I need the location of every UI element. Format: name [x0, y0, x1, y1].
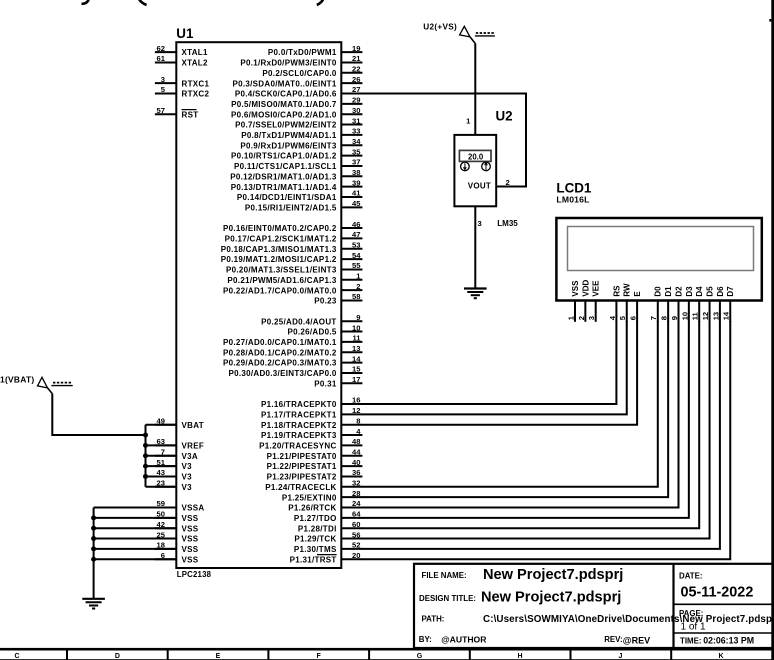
- svg-text:38: 38: [352, 168, 360, 177]
- svg-text:P1.28/TDI: P1.28/TDI: [298, 524, 337, 533]
- U1 pin 42 VSS: [155, 520, 199, 533]
- svg-text:D0: D0: [654, 286, 663, 297]
- svg-text:VBAT: VBAT: [182, 421, 204, 430]
- svg-text:P1.22/PIPESTAT1: P1.22/PIPESTAT1: [267, 462, 337, 471]
- wire U1(VBAT) flag to VBAT rail: [52, 394, 145, 435]
- svg-text:56: 56: [352, 530, 360, 539]
- svg-text:P1.18/TRACEPKT2: P1.18/TRACEPKT2: [261, 421, 337, 430]
- junction dots VBAT rail: [143, 433, 148, 479]
- svg-text:40: 40: [352, 458, 360, 467]
- U2 pin 1 number: [466, 117, 471, 126]
- svg-text:P1.31/TRST: P1.31/TRST: [290, 555, 337, 564]
- LCD1 pin 12 D5: [701, 286, 715, 322]
- svg-text:58: 58: [352, 292, 360, 301]
- LCD1 pin 14 D7: [722, 286, 736, 322]
- LCD1 pin 3 VEE: [587, 280, 601, 322]
- svg-text:64: 64: [352, 510, 361, 519]
- svg-text:31: 31: [352, 116, 361, 125]
- svg-text:U2(+VS): U2(+VS): [423, 23, 457, 32]
- svg-text:DESIGN TITLE:: DESIGN TITLE:: [419, 594, 476, 603]
- svg-text:8: 8: [660, 316, 669, 320]
- svg-text:26: 26: [352, 75, 360, 84]
- svg-text:22: 22: [352, 65, 360, 74]
- U1 pin 47 P0.17/CAP1.2/SCK1/MAT1.2: [225, 230, 363, 243]
- U1 pin 41 P0.14/DCD1/EINT1/SDA1: [237, 189, 362, 202]
- wire LCD1 D3 to U1 row pin: [362, 321, 689, 518]
- svg-text:@AUTHOR: @AUTHOR: [441, 635, 487, 645]
- svg-text:XTAL1: XTAL1: [182, 48, 208, 57]
- U1 pin 58 P0.23: [314, 292, 362, 305]
- U1 pin 44 P1.21/PIPESTAT0: [267, 447, 363, 460]
- svg-text:PATH:: PATH:: [422, 614, 445, 623]
- U1 pin 36 P1.23/PIPESTAT2: [267, 468, 363, 481]
- svg-text:P0.18/CAP1.3/MISO1/MAT1.3: P0.18/CAP1.3/MISO1/MAT1.3: [221, 245, 337, 254]
- svg-text:P0.8/TxD1/PWM4/AD1.1: P0.8/TxD1/PWM4/AD1.1: [241, 131, 337, 140]
- svg-text:9: 9: [356, 313, 360, 322]
- svg-text:11: 11: [691, 311, 700, 320]
- svg-text:41: 41: [352, 189, 361, 198]
- U1 pin 5 RTXC2: [155, 85, 210, 98]
- U1 pin 39 P0.13/DTR1/MAT1.1/AD1.4: [231, 178, 363, 191]
- svg-text:DATE:: DATE:: [679, 571, 703, 580]
- svg-text:P0.14/DCD1/EINT1/SDA1: P0.14/DCD1/EINT1/SDA1: [237, 193, 337, 202]
- svg-text:P1.24/TRACECLK: P1.24/TRACECLK: [265, 483, 336, 492]
- IC U1 LPC2138: [176, 26, 341, 579]
- U1 pin 49 VBAT: [155, 416, 204, 429]
- U1 pin 13 P0.28/AD0.1/CAP0.2/MAT0.2: [223, 344, 362, 357]
- U1 pin 33 P0.8/TxD1/PWM4/AD1.1: [241, 127, 362, 140]
- U1 pin 54 P0.19/MAT1.2/MOSI1/CAP1.2: [221, 251, 363, 264]
- svg-text:46: 46: [352, 220, 360, 229]
- svg-text:33: 33: [352, 127, 360, 136]
- U1 pin 25 VSS: [155, 530, 199, 543]
- svg-text:61: 61: [157, 54, 166, 63]
- svg-text:53: 53: [352, 240, 360, 249]
- svg-text:V3: V3: [182, 462, 193, 471]
- svg-text:15: 15: [352, 365, 361, 374]
- svg-text:13: 13: [711, 312, 720, 320]
- U1 pin 18 VSS: [155, 541, 199, 554]
- svg-text:F: F: [316, 653, 321, 660]
- LCD1 pin 2 VDD: [577, 279, 591, 321]
- svg-text:17: 17: [352, 375, 360, 384]
- U1 pin 31 P0.7/SSEL0/PWM2/EINT2: [235, 116, 362, 129]
- svg-text:1: 1: [466, 117, 471, 126]
- svg-text:47: 47: [352, 230, 360, 239]
- U1 pin 63 VREF: [155, 437, 204, 450]
- svg-text:REV:: REV:: [604, 635, 622, 644]
- wire LCD1 D0 to U1 row pin: [362, 321, 658, 487]
- svg-text:P1.19/TRACEPKT3: P1.19/TRACEPKT3: [261, 431, 337, 440]
- svg-text:New Project7.pdsprj: New Project7.pdsprj: [483, 567, 623, 583]
- svg-text:28: 28: [352, 489, 360, 498]
- svg-text:P0.21/PWM5/AD1.6/CAP1.3: P0.21/PWM5/AD1.6/CAP1.3: [227, 276, 336, 285]
- net rail VSSA/VSS to ground: [94, 508, 177, 599]
- svg-text:P0.16/EINT0/MAT0.2/CAP0.2: P0.16/EINT0/MAT0.2/CAP0.2: [223, 224, 337, 233]
- svg-text:P0.13/DTR1/MAT1.1/AD1.4: P0.13/DTR1/MAT1.1/AD1.4: [231, 183, 337, 192]
- svg-text:37: 37: [352, 158, 360, 167]
- svg-text:P0.20/MAT1.3/SSEL1/EINT3: P0.20/MAT1.3/SSEL1/EINT3: [226, 266, 337, 275]
- U1 pin 46 P0.16/EINT0/MAT0.2/CAP0.2: [223, 220, 362, 233]
- svg-text:LPC2138: LPC2138: [177, 570, 212, 579]
- svg-text:C: C: [14, 653, 19, 660]
- U1 pin 23 V3: [155, 479, 192, 492]
- U1 pin 7 V3A: [155, 447, 198, 460]
- U1 pin 57 RST: [155, 106, 199, 119]
- LCD1 pin 10 D3: [680, 286, 694, 322]
- svg-text:20.0: 20.0: [468, 153, 484, 162]
- svg-text:K: K: [718, 653, 723, 660]
- U1 pin 32 P1.24/TRACECLK: [265, 479, 362, 492]
- U2 pin 2 VOUT stub: [496, 178, 519, 187]
- svg-text:RS: RS: [612, 285, 621, 297]
- svg-text:P0.12/DSR1/MAT1.0/AD1.3: P0.12/DSR1/MAT1.0/AD1.3: [230, 172, 337, 181]
- svg-text:D5: D5: [705, 286, 714, 297]
- svg-text:11: 11: [352, 334, 361, 343]
- svg-text:36: 36: [352, 468, 360, 477]
- wire LCD1 D2 to U1 row pin: [362, 321, 679, 508]
- svg-text:E: E: [216, 653, 221, 660]
- svg-text:P0.6/MOSI0/CAP0.2/AD1.0: P0.6/MOSI0/CAP0.2/AD1.0: [231, 110, 337, 119]
- svg-text:6: 6: [629, 316, 638, 320]
- U1 pin 45 P0.15/RI1/EINT2/AD1.5: [245, 199, 362, 212]
- U1 pin 3 RTXC1: [155, 75, 210, 88]
- svg-text:57: 57: [157, 106, 165, 115]
- svg-text:P0.7/SSEL0/PWM2/EINT2: P0.7/SSEL0/PWM2/EINT2: [235, 121, 337, 130]
- U1 pin 30 P0.6/MOSI0/CAP0.2/AD1.0: [231, 106, 362, 119]
- U1 pin 50 VSS: [155, 510, 199, 523]
- U1 pin 34 P0.9/RxD1/PWM6/EINT3: [240, 137, 362, 150]
- svg-text:P1.16/TRACEPKT0: P1.16/TRACEPKT0: [261, 400, 337, 409]
- svg-text:RW: RW: [623, 283, 632, 297]
- svg-text:39: 39: [352, 178, 360, 187]
- svg-text:P0.19/MAT1.2/MOSI1/CAP1.2: P0.19/MAT1.2/MOSI1/CAP1.2: [221, 255, 337, 264]
- svg-text:BY:: BY:: [419, 635, 432, 644]
- svg-text:02:06:13 PM: 02:06:13 PM: [703, 635, 754, 645]
- svg-text:35: 35: [352, 147, 361, 156]
- svg-text:V3: V3: [182, 483, 193, 492]
- U1 pin 60 P1.28/TDI: [298, 520, 363, 533]
- U1 pin 19 P0.0/TxD0/PWM1: [268, 44, 362, 57]
- svg-text:VOUT: VOUT: [468, 181, 491, 190]
- svg-text:RTXC1: RTXC1: [182, 79, 210, 88]
- U1 pin 4 P1.19/TRACEPKT3: [261, 427, 362, 440]
- svg-text:U2: U2: [496, 108, 513, 123]
- svg-text:P0.15/RI1/EINT2/AD1.5: P0.15/RI1/EINT2/AD1.5: [245, 203, 337, 212]
- svg-text:D3: D3: [685, 286, 694, 297]
- svg-text:P0.25/AD0.4/AOUT: P0.25/AD0.4/AOUT: [261, 317, 337, 326]
- svg-text:D2: D2: [674, 286, 683, 297]
- svg-text:3: 3: [161, 75, 165, 84]
- U1 pin 53 P0.18/CAP1.3/MISO1/MAT1.3: [221, 240, 363, 253]
- U1 pin 16 P1.16/TRACEPKT0: [261, 396, 362, 409]
- U2 pin 3 wire to ground: [475, 206, 481, 288]
- svg-text:V3: V3: [182, 473, 193, 482]
- svg-text:60: 60: [352, 520, 360, 529]
- sensor U2 LM35: [454, 108, 512, 206]
- svg-text:9: 9: [670, 316, 679, 320]
- svg-text:P1.17/TRACEPKT1: P1.17/TRACEPKT1: [261, 410, 337, 419]
- U1 pin 11 P0.27/AD0.0/CAP0.1/MAT0.1: [223, 334, 362, 347]
- svg-text:3: 3: [478, 219, 482, 228]
- svg-text:P1.27/TDO: P1.27/TDO: [294, 514, 337, 523]
- U1 pin 20 P1.31/TRST: [290, 551, 363, 564]
- svg-text:12: 12: [352, 406, 360, 415]
- svg-text:VREF: VREF: [182, 442, 205, 451]
- svg-text:V3A: V3A: [182, 452, 198, 461]
- svg-text:P0.11/CTS1/CAP1.1/SCL1: P0.11/CTS1/CAP1.1/SCL1: [234, 162, 337, 171]
- U1 pin 29 P0.5/MISO0/MAT0.1/AD0.7: [231, 96, 362, 109]
- U1 pin 1 P0.21/PWM5/AD1.6/CAP1.3: [227, 272, 362, 285]
- U1 pin 37 P0.11/CTS1/CAP1.1/SCL1: [234, 158, 362, 171]
- svg-text:14: 14: [352, 354, 361, 363]
- svg-text:P0.5/MISO0/MAT0.1/AD0.7: P0.5/MISO0/MAT0.1/AD0.7: [231, 100, 337, 109]
- U1 pin 61 XTAL2: [155, 54, 208, 67]
- svg-text:VDD: VDD: [581, 279, 590, 296]
- svg-text:VSS: VSS: [182, 555, 199, 564]
- svg-text:P0.30/AD0.3/EINT3/CAP0.0: P0.30/AD0.3/EINT3/CAP0.0: [228, 369, 336, 378]
- svg-text:10: 10: [680, 312, 689, 320]
- U1 pin 8 P1.18/TRACEPKT2: [261, 416, 362, 429]
- svg-text:P0.22/AD1.7/CAP0.0/MAT0.0: P0.22/AD1.7/CAP0.0/MAT0.0: [223, 286, 337, 295]
- svg-text:P1.20/TRACESYNC: P1.20/TRACESYNC: [259, 442, 336, 451]
- svg-text:G: G: [417, 653, 423, 660]
- U1 pin 56 P1.29/TCK: [294, 530, 362, 543]
- LCD1 pin 4 RS: [608, 285, 622, 322]
- U1 pin 64 P1.27/TDO: [294, 510, 363, 523]
- svg-text:48: 48: [352, 437, 360, 446]
- svg-text:H: H: [517, 653, 522, 660]
- U1 pin 52 P1.30/TMS: [294, 541, 363, 554]
- U1 pin 38 P0.12/DSR1/MAT1.0/AD1.3: [230, 168, 362, 181]
- svg-text:RTXC2: RTXC2: [182, 90, 210, 99]
- svg-text:P0.10/RTS1/CAP1.0/AD1.2: P0.10/RTS1/CAP1.0/AD1.2: [231, 152, 337, 161]
- svg-text:VSS: VSS: [182, 545, 199, 554]
- svg-text:VSS: VSS: [571, 280, 580, 297]
- svg-text:RST: RST: [182, 110, 199, 119]
- svg-text:62: 62: [157, 44, 165, 53]
- LCD1 pin 1 VSS: [566, 280, 580, 322]
- net rail VBAT/VREF/V3A/V3: [146, 425, 177, 487]
- power flag U2(+VS): [423, 23, 495, 44]
- svg-text:P0.1/RxD0/PWM3/EINT0: P0.1/RxD0/PWM3/EINT0: [240, 59, 337, 68]
- svg-text:P1.21/PIPESTAT0: P1.21/PIPESTAT0: [267, 452, 337, 461]
- U1 pin 9 P0.25/AD0.4/AOUT: [261, 313, 362, 326]
- U1 pin 22 P0.2/SCL0/CAP0.0: [262, 65, 362, 78]
- svg-text:27: 27: [352, 85, 360, 94]
- svg-text:U1: U1: [176, 26, 194, 41]
- svg-text:P0.29/AD0.2/CAP0.3/MAT0.3: P0.29/AD0.2/CAP0.3/MAT0.3: [223, 359, 337, 368]
- svg-text:24: 24: [352, 499, 361, 508]
- svg-text:3: 3: [587, 316, 596, 320]
- svg-text:P0.23: P0.23: [314, 297, 337, 306]
- svg-text:P0.0/TxD0/PWM1: P0.0/TxD0/PWM1: [268, 48, 337, 57]
- U1 pin 17 P0.31: [314, 375, 362, 388]
- svg-text:VSSA: VSSA: [182, 504, 205, 513]
- wire LCD1 RS to U1 row pin: [362, 321, 616, 404]
- U1 pin 35 P0.10/RTS1/CAP1.0/AD1.2: [231, 147, 362, 160]
- svg-text:30: 30: [352, 106, 360, 115]
- U1 pin 6 VSS: [155, 551, 199, 564]
- svg-text:21: 21: [352, 54, 361, 63]
- svg-text:8: 8: [356, 416, 360, 425]
- value label LM35: [497, 219, 518, 228]
- svg-text:P0.31: P0.31: [314, 379, 337, 388]
- U1 pin 55 P0.20/MAT1.3/SSEL1/EINT3: [226, 261, 362, 274]
- svg-text:LM016L: LM016L: [556, 195, 589, 205]
- svg-text:TIME:: TIME:: [680, 636, 701, 645]
- svg-text:52: 52: [352, 541, 360, 550]
- svg-text:D1: D1: [664, 286, 673, 297]
- svg-text:34: 34: [352, 137, 361, 146]
- LCD1 pin 7 D0: [649, 286, 663, 322]
- svg-text:12: 12: [701, 312, 710, 320]
- LCD1 pin 8 D1: [660, 286, 674, 322]
- U1 pin 59 VSSA: [155, 499, 205, 512]
- svg-text:P0.2/SCL0/CAP0.0: P0.2/SCL0/CAP0.0: [262, 69, 336, 78]
- svg-text:P1.26/RTCK: P1.26/RTCK: [288, 504, 336, 513]
- svg-text:C:\Users\SOWMIYA\OneDrive\Docu: C:\Users\SOWMIYA\OneDrive\Documents\New …: [483, 614, 774, 625]
- U1 pin 14 P0.29/AD0.2/CAP0.3/MAT0.3: [223, 354, 362, 367]
- svg-text:P0.9/RxD1/PWM6/EINT3: P0.9/RxD1/PWM6/EINT3: [240, 141, 337, 150]
- svg-text:P0.3/SDA0/MAT0..0/EINT1: P0.3/SDA0/MAT0..0/EINT1: [232, 79, 336, 88]
- svg-text:05-11-2022: 05-11-2022: [681, 585, 754, 601]
- svg-text:VSS: VSS: [182, 535, 199, 544]
- U1 pin 26 P0.3/SDA0/MAT0..0/EINT1: [232, 75, 362, 88]
- svg-text:P1.30/TMS: P1.30/TMS: [294, 545, 337, 554]
- svg-text:P0.26/AD0.5: P0.26/AD0.5: [287, 328, 336, 337]
- LCD1 pin 6 E: [629, 291, 643, 322]
- wire LCD1 D1 to U1 row pin: [362, 321, 668, 497]
- U1 pin 43 V3: [155, 468, 192, 481]
- svg-text:44: 44: [352, 447, 361, 456]
- svg-text:54: 54: [352, 251, 361, 260]
- svg-text:32: 32: [352, 479, 360, 488]
- U1 pin 15 P0.30/AD0.3/EINT3/CAP0.0: [228, 365, 362, 378]
- U1 pin 51 V3: [155, 458, 192, 471]
- svg-text:13: 13: [352, 344, 360, 353]
- U1 pin 21 P0.1/RxD0/PWM3/EINT0: [240, 54, 362, 67]
- svg-text:14: 14: [722, 311, 731, 320]
- U1 pin 2 P0.22/AD1.7/CAP0.0/MAT0.0: [223, 282, 362, 295]
- svg-text:P0.28/AD0.1/CAP0.2/MAT0.2: P0.28/AD0.1/CAP0.2/MAT0.2: [223, 348, 337, 357]
- wire LCD1 D5 to U1 row pin: [362, 321, 710, 539]
- U1 pin 12 P1.17/TRACEPKT1: [261, 406, 362, 419]
- U1 pin 28 P1.25/EXTIN0: [282, 489, 363, 502]
- svg-text:D: D: [115, 653, 120, 660]
- svg-text:D4: D4: [695, 286, 704, 297]
- wire P0.4/AD0.6 (pin 27) to LM35 VOUT (pin 2): [362, 94, 526, 187]
- svg-text:P1.25/EXTIN0: P1.25/EXTIN0: [282, 493, 337, 502]
- wire LCD1 D6 to U1 row pin: [362, 321, 720, 549]
- svg-text:19: 19: [352, 44, 360, 53]
- svg-text:55: 55: [352, 261, 361, 270]
- junction dots VSS rail: [91, 515, 96, 561]
- svg-text:New Project7.pdsprj: New Project7.pdsprj: [481, 590, 621, 606]
- wire LCD1 D4 to U1 row pin: [362, 321, 699, 528]
- svg-text:LM35: LM35: [497, 219, 518, 228]
- U1 pin 48 P1.20/TRACESYNC: [259, 437, 362, 450]
- svg-text:XTAL2: XTAL2: [182, 59, 208, 68]
- U1 pin 24 P1.26/RTCK: [288, 499, 362, 512]
- svg-text:16: 16: [352, 396, 360, 405]
- LCD1 pin 9 D2: [670, 286, 684, 322]
- svg-text:P0.4/SCK0/CAP0.1/AD0.6: P0.4/SCK0/CAP0.1/AD0.6: [235, 90, 337, 99]
- LCD1 pin 11 D4: [691, 286, 705, 322]
- svg-text:P0.17/CAP1.2/SCK1/MAT1.2: P0.17/CAP1.2/SCK1/MAT1.2: [225, 235, 337, 244]
- svg-text:U1(VBAT): U1(VBAT): [0, 374, 35, 384]
- svg-text:P1.23/PIPESTAT2: P1.23/PIPESTAT2: [267, 473, 337, 482]
- wire LCD1 D7 to U1 row pin: [362, 321, 730, 559]
- svg-text:2: 2: [505, 178, 509, 187]
- ground below LM35: [464, 289, 487, 299]
- svg-text:FILE NAME:: FILE NAME:: [422, 571, 467, 580]
- U1 pin 40 P1.22/PIPESTAT1: [267, 458, 363, 471]
- svg-text:P1.29/TCK: P1.29/TCK: [294, 535, 336, 544]
- U1 pin 10 P0.26/AD0.5: [287, 323, 362, 336]
- svg-text:10: 10: [352, 323, 360, 332]
- svg-text:VSS: VSS: [182, 524, 199, 533]
- LCD1 pin 13 D6: [711, 286, 725, 322]
- svg-text:VSS: VSS: [182, 514, 199, 523]
- svg-text:2: 2: [356, 282, 360, 291]
- svg-text:@REV: @REV: [623, 636, 650, 646]
- svg-text:LCD1: LCD1: [556, 181, 592, 196]
- svg-text:E: E: [633, 291, 642, 297]
- svg-text:D7: D7: [726, 286, 735, 297]
- svg-text:2: 2: [577, 316, 586, 320]
- ground below VSS rail: [82, 599, 105, 609]
- power flag U1(VBAT): [0, 374, 73, 393]
- svg-text:7: 7: [649, 316, 658, 320]
- U1 pin 27 P0.4/SCK0/CAP0.1/AD0.6: [235, 85, 363, 98]
- svg-text:P0.27/AD0.0/CAP0.1/MAT0.1: P0.27/AD0.0/CAP0.1/MAT0.1: [223, 338, 337, 347]
- LCD LCD1 LM016L: [556, 181, 761, 301]
- wire LCD1 E to U1 row pin: [362, 321, 637, 425]
- svg-text:29: 29: [352, 96, 360, 105]
- svg-text:45: 45: [352, 199, 361, 208]
- svg-text:20: 20: [352, 551, 360, 560]
- U1 pin 62 XTAL1: [155, 44, 208, 57]
- svg-text:VEE: VEE: [592, 280, 601, 297]
- svg-text:D6: D6: [716, 286, 725, 297]
- wire U2(+VS) flag to LM35 pin 1: [474, 44, 476, 135]
- LCD1 pin 5 RW: [618, 283, 632, 322]
- wire LCD1 RW to U1 row pin: [362, 321, 627, 414]
- svg-text:J: J: [619, 653, 623, 660]
